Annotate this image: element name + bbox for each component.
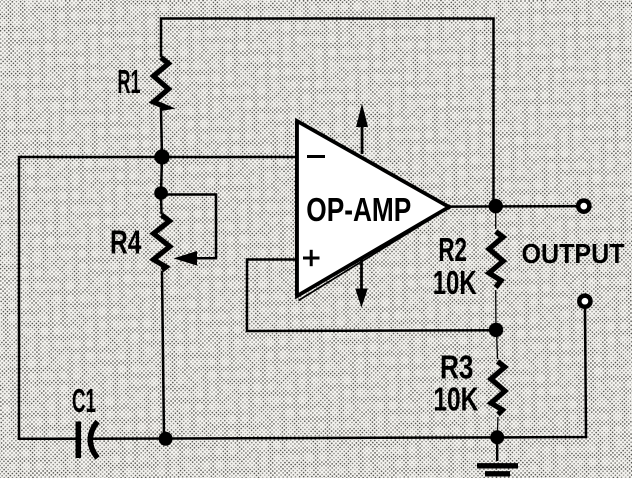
wire R2 top thin lead — [495, 206, 497, 229]
node C1/R4 bottom junction — [159, 432, 173, 446]
wire R1 bottom lead to node A — [161, 109, 162, 157]
capacitor C1 curved plate — [90, 422, 97, 459]
positive supply arrow — [356, 104, 368, 155]
svg-text:R1: R1 — [118, 63, 141, 100]
svg-text:R4: R4 — [110, 224, 142, 261]
resistor R2 — [489, 232, 503, 288]
wire lower terminal to ground rail — [497, 309, 586, 437]
resistor R3 — [491, 362, 505, 415]
wire op-amp output to terminal — [449, 205, 577, 208]
node feedback junction — [489, 323, 503, 337]
svg-text:OUTPUT: OUTPUT — [522, 238, 625, 269]
wire top rail from R1 top to right column — [161, 19, 494, 207]
wire R2 bottom thin lead — [495, 290, 497, 330]
node output junction — [489, 199, 503, 213]
wire R3 top thin lead — [497, 330, 498, 359]
wire inverting input rail — [19, 157, 297, 439]
op-amp U1 body — [296, 121, 451, 301]
svg-text:10K: 10K — [433, 381, 478, 418]
negative supply arrow — [355, 258, 368, 308]
op-amp non-inverting input plus sign — [303, 250, 320, 266]
op-amp inverting input minus sign — [307, 155, 325, 158]
resistor R4 (variable) — [154, 215, 170, 270]
capacitor C1 left plate — [76, 422, 82, 459]
wire bottom rail from C1 to ground node — [91, 437, 498, 438]
wire node A to node B — [161, 157, 162, 193]
svg-text:OP-AMP: OP-AMP — [306, 191, 411, 228]
terminal upper output circle — [578, 201, 589, 212]
terminal lower output circle — [579, 296, 590, 307]
wire R4 wiper loop — [162, 195, 216, 259]
wire R4 top lead — [160, 193, 163, 213]
R4 wiper arrowhead — [174, 251, 198, 266]
wire R3 bottom thin lead — [496, 417, 499, 437]
node ground junction — [490, 430, 504, 444]
svg-text:C1: C1 — [72, 382, 96, 419]
node B (R4 top / wiper junction) — [154, 186, 168, 200]
resistor R1 — [154, 58, 169, 109]
svg-text:10K: 10K — [433, 264, 477, 301]
svg-text:R2: R2 — [438, 231, 467, 268]
wire non-inverting input loop — [247, 260, 496, 332]
node A (R1/R4/inverting input junction) — [154, 149, 169, 164]
wire bottom rail left of C1 — [19, 437, 77, 440]
wire R4 bottom lead down to bottom rail — [162, 272, 164, 439]
ground symbol — [477, 437, 518, 474]
